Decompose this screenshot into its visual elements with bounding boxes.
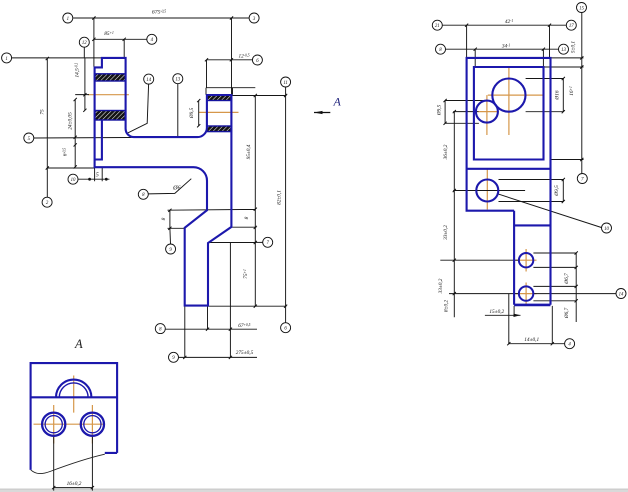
svg-text:82±0,1: 82±0,1: [277, 190, 283, 205]
svg-text:8: 8: [161, 217, 167, 220]
svg-text:A: A: [74, 337, 83, 351]
svg-text:275±0,5: 275±0,5: [236, 350, 254, 356]
svg-text:11: 11: [283, 81, 287, 86]
svg-text:15: 15: [579, 6, 584, 11]
svg-text:17: 17: [569, 24, 574, 29]
svg-text:95±0,4: 95±0,4: [246, 144, 252, 159]
svg-text:Ø9,5: Ø9,5: [189, 107, 195, 119]
svg-text:5±0,1: 5±0,1: [570, 41, 576, 54]
svg-text:A: A: [333, 95, 342, 109]
svg-text:12: 12: [82, 41, 87, 46]
svg-text:Ø16: Ø16: [555, 90, 561, 100]
svg-text:1: 1: [5, 57, 7, 62]
svg-text:10: 10: [604, 227, 609, 232]
svg-text:21: 21: [435, 24, 440, 29]
svg-text:16±0,2: 16±0,2: [67, 481, 82, 487]
svg-text:Ø6: Ø6: [172, 186, 180, 192]
svg-text:Ø6,7: Ø6,7: [564, 307, 570, 319]
svg-text:13: 13: [175, 78, 180, 83]
svg-text:Ø9,5: Ø9,5: [554, 185, 560, 197]
svg-text:8: 8: [244, 216, 250, 219]
svg-text:Ø6,7: Ø6,7: [564, 273, 570, 285]
svg-text:Ø9,5: Ø9,5: [436, 104, 442, 116]
svg-text:33±0,2: 33±0,2: [443, 225, 449, 240]
svg-text:15±0,2: 15±0,2: [489, 309, 504, 315]
svg-text:33±0,2: 33±0,2: [438, 278, 444, 293]
svg-text:14: 14: [619, 292, 624, 297]
svg-text:5: 5: [96, 173, 99, 179]
svg-text:24±0,05: 24±0,05: [68, 112, 74, 130]
svg-text:75: 75: [40, 109, 46, 115]
svg-text:14: 14: [146, 78, 151, 83]
svg-text:14±0,1: 14±0,1: [524, 337, 539, 343]
svg-text:13: 13: [561, 48, 566, 53]
svg-text:8±0,2: 8±0,2: [444, 300, 450, 313]
svg-text:1: 1: [67, 17, 69, 22]
svg-text:36±0,2: 36±0,2: [443, 144, 449, 159]
svg-text:10: 10: [71, 178, 76, 183]
